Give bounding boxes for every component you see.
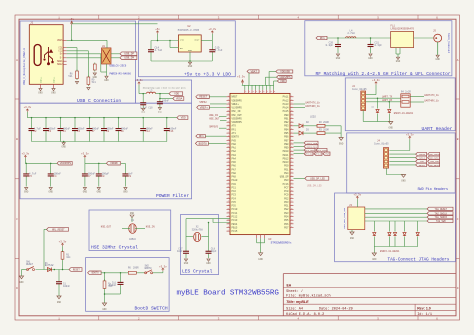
svg-text:BOOT0: BOOT0 — [92, 272, 100, 275]
svg-text:+5v: +5v — [69, 18, 74, 21]
svg-text:GND: GND — [336, 57, 341, 60]
svg-text:4: 4 — [297, 16, 299, 19]
svg-text:+3.3v: +3.3v — [208, 28, 216, 31]
svg-text:GND: GND — [62, 146, 67, 149]
svg-text:4: 4 — [297, 317, 299, 320]
svg-text:6: 6 — [436, 317, 438, 320]
svg-text:TAG_RESET: TAG_RESET — [429, 164, 441, 167]
svg-text:GND: GND — [51, 91, 56, 94]
svg-text:2: 2 — [291, 131, 292, 134]
svg-text:VDD: VDD — [280, 80, 285, 83]
svg-text:GND: GND — [102, 308, 107, 311]
svg-text:3: 3 — [291, 200, 292, 203]
svg-text:9: 9 — [228, 221, 229, 224]
svg-text:UART4TX_1k: UART4TX_1k — [305, 101, 320, 104]
svg-text:UART Header: UART Header — [422, 126, 453, 132]
svg-text:PD1: PD1 — [284, 168, 289, 171]
svg-text:SPI_CLK: SPI_CLK — [305, 153, 315, 156]
svg-text:3: 3 — [228, 167, 229, 170]
svg-text:USB C Connection: USB C Connection — [77, 98, 121, 104]
svg-text:GND: GND — [83, 190, 88, 193]
svg-text:8: 8 — [228, 185, 229, 188]
svg-text:+3.3v: +3.3v — [159, 265, 167, 268]
svg-text:PC6: PC6 — [232, 205, 237, 208]
svg-text:+3.3v: +3.3v — [406, 133, 414, 136]
svg-text:TAG_SWO: TAG_SWO — [436, 220, 446, 223]
svg-text:SMPS2: SMPS2 — [199, 101, 207, 104]
svg-text:ESD15-01-W0201: ESD15-01-W0201 — [394, 112, 414, 115]
svg-text:PA1: PA1 — [232, 147, 237, 150]
svg-text:GND: GND — [24, 190, 29, 193]
svg-text:MIC5365-3.3YD5: MIC5365-3.3YD5 — [178, 29, 200, 32]
svg-text:PD0: PD0 — [284, 165, 289, 168]
svg-text:J1: J1 — [30, 22, 34, 25]
svg-text:4: 4 — [291, 171, 292, 174]
svg-text:5: 5 — [291, 142, 292, 145]
svg-text:+3.3v: +3.3v — [22, 153, 30, 156]
svg-text:5: 5 — [228, 207, 229, 210]
svg-text:TAG-Connect JTAG Headers: TAG-Connect JTAG Headers — [388, 257, 450, 262]
svg-text:PE3: PE3 — [284, 212, 289, 215]
svg-text:TAG_SWDIO: TAG_SWDIO — [429, 153, 441, 156]
svg-text:SPI_MOSI: SPI_MOSI — [305, 149, 316, 152]
svg-text:2: 2 — [138, 16, 140, 19]
svg-text:6: 6 — [228, 211, 229, 214]
svg-text:PC12: PC12 — [232, 215, 238, 218]
svg-text:PH3: PH3 — [232, 139, 237, 142]
svg-text:6: 6 — [291, 211, 292, 214]
svg-text:3: 3 — [218, 16, 220, 19]
svg-text:TAG_SWDIO: TAG_SWDIO — [435, 216, 448, 219]
svg-text:6: 6 — [436, 16, 438, 19]
svg-text:VFBSMPS: VFBSMPS — [232, 121, 243, 124]
svg-text:2: 2 — [228, 196, 229, 199]
svg-text:4.7uF: 4.7uF — [155, 49, 163, 52]
svg-text:AT1: AT1 — [232, 132, 237, 135]
svg-text:A: A — [457, 59, 459, 62]
svg-text:STM32WB55RGVx: STM32WB55RGVx — [271, 242, 292, 245]
svg-text:HSE_OUT: HSE_OUT — [101, 225, 112, 228]
svg-text:PB2: PB2 — [284, 121, 289, 124]
svg-text:PA15: PA15 — [283, 110, 289, 113]
svg-text:3: 3 — [228, 102, 229, 105]
svg-text:R2 200R: R2 200R — [319, 121, 329, 124]
svg-text:4: 4 — [291, 138, 292, 141]
svg-text:SWDIO: SWDIO — [419, 153, 426, 156]
svg-text:5: 5 — [291, 109, 292, 112]
svg-text:10pF: 10pF — [177, 250, 183, 253]
svg-text:7: 7 — [228, 182, 229, 185]
svg-text:7: 7 — [291, 182, 292, 185]
svg-text:3: 3 — [291, 134, 292, 137]
svg-text:PC11: PC11 — [232, 212, 238, 215]
svg-text:PA5: PA5 — [232, 161, 237, 164]
svg-text:PB7: PB7 — [284, 139, 289, 142]
svg-text:VSSSMPS: VSSSMPS — [232, 117, 243, 120]
svg-text:GND: GND — [258, 258, 263, 261]
svg-text:USBLC6-2SC6: USBLC6-2SC6 — [110, 65, 127, 68]
svg-text:RF1: RF1 — [320, 37, 325, 40]
svg-text:7: 7 — [228, 116, 229, 119]
svg-text:RF1: RF1 — [232, 128, 237, 131]
svg-text:EA: EA — [287, 283, 292, 287]
svg-text:9: 9 — [228, 123, 229, 126]
svg-text:POWER Filter: POWER Filter — [156, 193, 189, 199]
svg-text:5: 5 — [377, 317, 379, 320]
svg-text:HSE_IN: HSE_IN — [146, 225, 155, 228]
svg-text:GND: GND — [57, 301, 62, 304]
svg-text:PB11: PB11 — [283, 154, 289, 157]
svg-text:SHELL: SHELL — [52, 76, 55, 83]
svg-text:9: 9 — [291, 156, 292, 159]
svg-text:USB_DM: USB_DM — [124, 57, 134, 60]
svg-text:+3.3v: +3.3v — [135, 79, 143, 82]
svg-text:USB_DP: USB_DP — [124, 53, 134, 56]
svg-text:C16: C16 — [169, 130, 174, 133]
svg-text:PA13: PA13 — [283, 103, 289, 106]
svg-text:VDDSMPS: VDDSMPS — [279, 76, 291, 79]
svg-text:PA4: PA4 — [232, 157, 237, 160]
svg-text:TAG_RESET: TAG_RESET — [435, 208, 448, 211]
svg-text:LED2: LED2 — [310, 115, 316, 118]
svg-text:SBU2: SBU2 — [57, 63, 63, 66]
svg-text:3: 3 — [253, 91, 254, 93]
svg-text:VBUS: VBUS — [57, 39, 63, 42]
svg-text:2: 2 — [228, 98, 229, 101]
svg-text:GND: GND — [372, 258, 377, 261]
svg-text:USB_C_Receptacle_USB2.0: USB_C_Receptacle_USB2.0 — [22, 48, 26, 85]
svg-text:PB1: PB1 — [284, 117, 289, 120]
svg-text:D: D — [457, 287, 459, 290]
svg-text:1: 1 — [58, 16, 60, 19]
svg-text:7: 7 — [291, 149, 292, 152]
svg-text:PA2: PA2 — [232, 150, 237, 153]
svg-text:4: 4 — [291, 105, 292, 108]
svg-text:RESET: RESET — [199, 96, 207, 99]
svg-text:PB15: PB15 — [232, 226, 238, 229]
svg-text:HSE_OUT: HSE_OUT — [209, 117, 220, 120]
svg-text:PD4: PD4 — [284, 215, 289, 218]
svg-text:PB8: PB8 — [284, 143, 289, 146]
svg-text:Id: 1/1: Id: 1/1 — [417, 312, 432, 317]
svg-text:PB10: PB10 — [283, 150, 289, 153]
svg-text:TAG_SWCLK: TAG_SWCLK — [429, 157, 441, 160]
svg-text:5: 5 — [228, 174, 229, 177]
svg-text:PC9: PC9 — [284, 194, 289, 197]
svg-text:PC15: PC15 — [232, 230, 238, 233]
svg-text:myBLE Board STM32WB55RG: myBLE Board STM32WB55RG — [177, 289, 280, 297]
svg-text:VDDA: VDDA — [176, 97, 183, 100]
svg-text:GND: GND — [97, 190, 102, 193]
svg-text:PB5: PB5 — [284, 132, 289, 135]
svg-text:GND: GND — [389, 127, 394, 130]
svg-text:8: 8 — [291, 218, 292, 221]
svg-text:PB6: PB6 — [284, 136, 289, 139]
svg-text:C12: C12 — [145, 130, 150, 133]
svg-text:UART_TX: UART_TX — [382, 95, 393, 98]
svg-text:4: 4 — [228, 203, 229, 206]
svg-text:9: 9 — [291, 123, 292, 126]
svg-text:10pF: 10pF — [211, 250, 217, 253]
svg-text:GND: GND — [38, 91, 43, 94]
svg-text:PC1: PC1 — [232, 186, 237, 189]
svg-text:2: 2 — [228, 229, 229, 232]
svg-text:PE1: PE1 — [284, 205, 289, 208]
svg-text:UART_RX: UART_RX — [382, 99, 393, 102]
svg-text:GND: GND — [93, 76, 98, 79]
svg-text:7: 7 — [267, 91, 268, 93]
svg-text:C8: C8 — [102, 175, 105, 178]
svg-text:2: 2 — [291, 98, 292, 101]
svg-text:ESD15-01-W0201: ESD15-01-W0201 — [380, 250, 400, 253]
svg-text:GND: GND — [350, 237, 355, 240]
svg-text:PD5: PD5 — [284, 219, 289, 222]
svg-text:5: 5 — [228, 109, 229, 112]
svg-text:7: 7 — [291, 214, 292, 217]
svg-text:Conn_01x05: Conn_01x05 — [374, 142, 389, 145]
svg-text:RESET: RESET — [419, 164, 426, 167]
svg-text:PB0: PB0 — [284, 114, 289, 117]
svg-text:+3.3v: +3.3v — [81, 153, 89, 156]
svg-text:VLXSMPS: VLXSMPS — [232, 107, 243, 110]
svg-text:BOOT0: BOOT0 — [145, 267, 153, 270]
svg-text:8: 8 — [228, 218, 229, 221]
svg-text:PA14: PA14 — [283, 107, 289, 110]
svg-text:VOUT: VOUT — [194, 38, 200, 41]
svg-text:GND: GND — [184, 262, 189, 265]
svg-text:8: 8 — [228, 152, 229, 155]
svg-text:5: 5 — [291, 207, 292, 210]
svg-text:PC3: PC3 — [232, 194, 237, 197]
svg-text:SWD Pio Headers: SWD Pio Headers — [418, 187, 449, 192]
svg-text:PC13: PC13 — [232, 219, 238, 222]
svg-text:SHELL: SHELL — [39, 76, 42, 83]
svg-text:GND: GND — [19, 281, 24, 284]
svg-text:GND: GND — [141, 111, 146, 114]
svg-text:VDDRF: VDDRF — [110, 162, 118, 165]
svg-text:RF Matching with 2.4~2.5 GH Fi: RF Matching with 2.4~2.5 GH Filter & UFL… — [316, 71, 451, 77]
svg-text:PC7: PC7 — [284, 186, 289, 189]
svg-text:GND: GND — [104, 79, 109, 82]
svg-text:9: 9 — [228, 156, 229, 159]
svg-text:4: 4 — [228, 138, 229, 141]
svg-text:PC8: PC8 — [284, 190, 289, 193]
svg-text:+3.3v: +3.3v — [353, 193, 361, 196]
svg-text:GND: GND — [401, 180, 406, 183]
svg-text:+5v to +3.3 V LDO: +5v to +3.3 V LDO — [184, 71, 231, 77]
svg-text:PB4: PB4 — [284, 128, 289, 131]
svg-text:Date: 2024-04-29: Date: 2024-04-29 — [319, 307, 353, 311]
svg-text:UART4RX_1k: UART4RX_1k — [424, 100, 439, 103]
svg-text:PA10: PA10 — [232, 179, 238, 182]
svg-text:PE4: PE4 — [284, 172, 289, 175]
svg-text:100nF: 100nF — [63, 285, 71, 288]
svg-text:+3.3v: +3.3v — [372, 79, 380, 82]
svg-text:9: 9 — [291, 221, 292, 224]
svg-text:7: 7 — [291, 116, 292, 119]
svg-text:KiCad E.D.A. 8.0.2: KiCad E.D.A. 8.0.2 — [286, 312, 324, 317]
svg-text:VDD: VDD — [181, 117, 186, 120]
svg-text:LES Crystal: LES Crystal — [182, 268, 213, 274]
svg-text:7: 7 — [228, 149, 229, 152]
svg-text:UART4TX_1k: UART4TX_1k — [424, 94, 439, 97]
svg-text:Title: myBLE: Title: myBLE — [286, 300, 309, 304]
svg-text:32MHz: 32MHz — [129, 238, 137, 241]
svg-text:GND: GND — [130, 212, 135, 215]
svg-text:TAG_SWCLK: TAG_SWCLK — [435, 212, 448, 215]
svg-text:100nF: 100nF — [109, 284, 117, 287]
svg-text:200R: 200R — [133, 267, 139, 270]
svg-text:6: 6 — [291, 178, 292, 181]
svg-text:2: 2 — [249, 91, 250, 93]
svg-text:5: 5 — [260, 91, 261, 93]
svg-text:GND: GND — [158, 111, 163, 114]
svg-text:USB_DM_LED: USB_DM_LED — [307, 184, 322, 187]
svg-text:BOOT0: BOOT0 — [232, 136, 240, 139]
svg-text:I2C1_SCL: I2C1_SCL — [307, 145, 318, 148]
svg-text:PD6: PD6 — [284, 223, 289, 226]
svg-text:PB12: PB12 — [283, 157, 289, 160]
svg-text:3: 3 — [291, 167, 292, 170]
svg-text:HSE_IN: HSE_IN — [209, 114, 218, 117]
svg-text:Conn_01x05: Conn_01x05 — [352, 88, 367, 91]
svg-text:USB_DP: USB_DP — [280, 176, 289, 179]
svg-text:8: 8 — [228, 120, 229, 123]
svg-text:9: 9 — [291, 189, 292, 192]
svg-text:GND: GND — [188, 65, 193, 68]
svg-text:GND: GND — [396, 60, 401, 63]
svg-text:7: 7 — [228, 214, 229, 217]
svg-text:RESET: RESET — [73, 268, 81, 271]
svg-text:Conn_ARM_JTAG_SWD: Conn_ARM_JTAG_SWD — [343, 207, 346, 229]
svg-text:I2C1_SDA: I2C1_SDA — [307, 142, 318, 145]
svg-text:3: 3 — [228, 134, 229, 137]
svg-text:PD2: PD2 — [284, 197, 289, 200]
svg-text:9: 9 — [228, 189, 229, 192]
svg-text:GND: GND — [49, 190, 54, 193]
svg-text:PWRIN-M5-N4066: PWRIN-M5-N4066 — [110, 73, 132, 76]
svg-text:VDDSMPS: VDDSMPS — [232, 99, 243, 102]
svg-text:PC2: PC2 — [232, 190, 237, 193]
svg-text:VREF+: VREF+ — [200, 106, 208, 109]
svg-text:6: 6 — [228, 178, 229, 181]
svg-text:6: 6 — [263, 91, 264, 93]
svg-text:B: B — [457, 138, 459, 141]
svg-text:VIN: VIN — [180, 38, 185, 41]
svg-text:4: 4 — [228, 105, 229, 108]
svg-text:USB_DP_LED: USB_DP_LED — [310, 177, 325, 180]
svg-text:U2: U2 — [188, 25, 192, 28]
svg-text:B: B — [16, 138, 18, 141]
svg-text:8: 8 — [291, 120, 292, 123]
svg-text:1: 1 — [245, 91, 246, 93]
svg-text:6: 6 — [228, 145, 229, 148]
svg-text:5k1: 5k1 — [68, 75, 73, 78]
svg-text:C: C — [16, 218, 18, 221]
svg-text:+3.3v: +3.3v — [24, 106, 32, 109]
svg-text:PC10: PC10 — [232, 208, 238, 211]
svg-text:32Khz768: 32Khz768 — [192, 229, 204, 232]
svg-text:BootD SWITCH: BootD SWITCH — [135, 306, 168, 312]
svg-text:100nF: 100nF — [162, 100, 170, 103]
svg-text:5: 5 — [291, 174, 292, 177]
svg-text:PA12: PA12 — [283, 99, 289, 102]
svg-text:NRL_RESET: NRL_RESET — [52, 228, 65, 231]
svg-text:PC0: PC0 — [232, 183, 237, 186]
svg-text:PA7: PA7 — [232, 168, 237, 171]
svg-text:PA3: PA3 — [232, 154, 237, 157]
svg-text:NRST: NRST — [232, 96, 238, 99]
svg-text:2: 2 — [138, 317, 140, 320]
svg-text:PC16: PC16 — [283, 183, 289, 186]
svg-text:BOOT0: BOOT0 — [199, 142, 207, 145]
svg-text:RF1: RF1 — [199, 135, 204, 138]
svg-text:PWM: PWM — [325, 153, 330, 156]
svg-text:PB14: PB14 — [232, 223, 238, 226]
svg-text:VDDUSB: VDDUSB — [280, 70, 290, 73]
svg-text:+5v: +5v — [155, 28, 160, 31]
svg-text:8: 8 — [291, 152, 292, 155]
svg-text:PA6: PA6 — [232, 165, 237, 168]
svg-text:PB9: PB9 — [284, 147, 289, 150]
svg-text:3: 3 — [291, 102, 292, 105]
svg-text:10k: 10k — [66, 256, 71, 259]
svg-text:GND: GND — [436, 58, 441, 61]
svg-text:OSC_OUT: OSC_OUT — [232, 114, 243, 117]
svg-text:8: 8 — [271, 91, 272, 93]
svg-text:4: 4 — [256, 91, 257, 93]
svg-text:PA9: PA9 — [232, 176, 237, 179]
svg-text:2: 2 — [291, 196, 292, 199]
svg-text:+3.3v: +3.3v — [237, 76, 245, 79]
svg-text:6: 6 — [291, 113, 292, 116]
svg-text:R4 2x2R: R4 2x2R — [401, 91, 411, 94]
svg-text:GND: GND — [368, 57, 373, 60]
svg-text:2: 2 — [228, 163, 229, 166]
svg-text:5k1: 5k1 — [92, 81, 97, 84]
svg-text:Rev: 1.0: Rev: 1.0 — [417, 306, 431, 310]
svg-text:+3.3v: +3.3v — [59, 240, 67, 243]
svg-text:HSE 32Mhz Crystal: HSE 32Mhz Crystal — [91, 245, 138, 251]
svg-text:VDD: VDD — [174, 93, 179, 96]
svg-text:GND: GND — [339, 143, 344, 146]
svg-text:4: 4 — [228, 171, 229, 174]
svg-text:5: 5 — [228, 142, 229, 145]
svg-text:PC5: PC5 — [232, 201, 237, 204]
svg-text:Conn_Coaxial: Conn_Coaxial — [447, 33, 451, 53]
svg-text:PA8: PA8 — [232, 172, 237, 175]
svg-text:GND: GND — [206, 262, 211, 265]
svg-text:4.7uF: 4.7uF — [215, 49, 223, 52]
svg-text:1: 1 — [58, 317, 60, 320]
svg-text:PC4: PC4 — [232, 197, 237, 200]
svg-text:2: 2 — [228, 131, 229, 134]
svg-text:3: 3 — [218, 317, 220, 320]
svg-text:VDDSMPS: VDDSMPS — [60, 162, 72, 165]
svg-text:LFB182G45SG9A470: LFB182G45SG9A470 — [391, 27, 415, 30]
svg-text:TAG_SWO: TAG_SWO — [430, 160, 439, 163]
svg-text:PD3: PD3 — [284, 201, 289, 204]
svg-text:GND: GND — [188, 49, 193, 52]
svg-text:PD7: PD7 — [284, 226, 289, 229]
svg-text:C: C — [457, 218, 459, 221]
svg-text:5: 5 — [377, 16, 379, 19]
svg-text:RESET: RESET — [26, 263, 34, 266]
svg-text:AT0: AT0 — [232, 125, 237, 128]
svg-text:SWCLK: SWCLK — [419, 157, 426, 160]
svg-text:2: 2 — [291, 163, 292, 166]
svg-text:BAT54W: BAT54W — [45, 264, 54, 267]
